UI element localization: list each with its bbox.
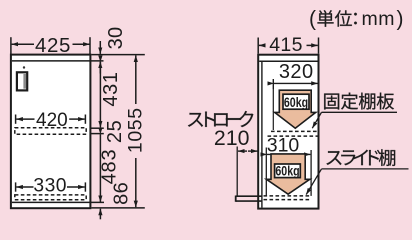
label slide shelf leader — [306, 169, 321, 195]
dim 1055 line with arrows — [135, 55, 137, 207]
dim 310 right extension tick — [310, 150, 312, 196]
svg-text:320: 320 — [279, 61, 314, 83]
svg-text:330: 330 — [33, 176, 67, 197]
dim 483 line with arrows — [99, 134, 101, 202]
lower 60kg box — [275, 164, 301, 178]
keyhole dot — [23, 66, 25, 68]
dim 420 ticks — [16, 115, 86, 124]
dim 210 line with arrows — [238, 150, 258, 152]
svg-text:mm: mm — [362, 8, 396, 30]
slide shelf (dashed) — [264, 196, 312, 200]
dim 25 ticks — [91, 128, 104, 133]
left cabinet top panel lower line (extends right for 30 dim) — [12, 60, 104, 62]
svg-text:415: 415 — [269, 34, 302, 56]
dim 415 extension ticks — [258, 38, 318, 54]
svg-text:25: 25 — [104, 120, 126, 143]
svg-text:483: 483 — [99, 149, 121, 185]
dim 210 extension line — [236, 147, 238, 197]
left cabinet bottom line extension (for 86 and 1055 dims) — [91, 207, 144, 209]
svg-text:): ) — [397, 8, 404, 31]
upper shelf (dashed) — [15, 128, 86, 135]
left cabinet body (front view) — [11, 55, 91, 209]
svg-text:60kg: 60kg — [284, 95, 308, 110]
dim 320 line with arrows — [274, 82, 318, 84]
dim 86 arrow — [99, 209, 101, 220]
slide rail (pulled out) — [236, 196, 262, 202]
dim 330 ticks — [16, 182, 86, 191]
dim 330 text backing — [34, 177, 67, 191]
svg-text:30: 30 — [105, 27, 127, 50]
svg-text:420: 420 — [36, 110, 68, 131]
label fixed shelf leader — [312, 112, 321, 128]
left cabinet top line extension (for 30 and 1055 dims) — [91, 54, 144, 56]
right cabinet inner left wall line — [261, 61, 263, 207]
lower shelf (dashed) — [15, 195, 86, 200]
dim 415 line with arrows — [259, 44, 318, 46]
label text ストローク — [188, 113, 203, 127]
dim 330 line with arrows — [16, 186, 84, 188]
right cabinet body (side view) — [258, 55, 318, 209]
label slide shelf underline — [322, 168, 409, 170]
dim 310 left extension tick — [265, 148, 267, 196]
upper 60kg box — [283, 94, 309, 109]
unit note (単位：mm) — [309, 8, 404, 31]
dim 420 line with arrows — [16, 118, 84, 120]
label fixed shelf underline — [322, 111, 398, 113]
label text 固定棚板 — [324, 93, 339, 109]
svg-text:431: 431 — [100, 71, 122, 106]
svg-text:86: 86 — [111, 182, 133, 205]
door handle — [17, 72, 27, 90]
dim 310 line with arrows — [267, 153, 310, 155]
dim 425 extension ticks — [11, 37, 90, 54]
dim 320 left extension tick — [272, 79, 274, 89]
dim 425 line with arrows — [12, 43, 90, 45]
dim 431 line with arrows — [99, 62, 101, 127]
label text スライド棚 — [326, 151, 341, 165]
left cabinet plinth top line (extends right for 86 dim) — [12, 201, 104, 203]
fixed shelf (dashed) — [268, 131, 319, 136]
svg-text:1055: 1055 — [125, 107, 147, 153]
svg-text:60kg: 60kg — [275, 164, 299, 179]
svg-text:(: ( — [309, 8, 316, 31]
fixed shelf left extension line — [272, 89, 274, 130]
upper load arrow (60kg) — [275, 90, 316, 128]
svg-text:425: 425 — [35, 34, 71, 57]
svg-text:210: 210 — [214, 126, 250, 150]
dim 30 arrows — [99, 41, 101, 74]
lower load arrow (60kg) — [266, 154, 309, 194]
right cabinet top panel lower line — [259, 60, 317, 62]
